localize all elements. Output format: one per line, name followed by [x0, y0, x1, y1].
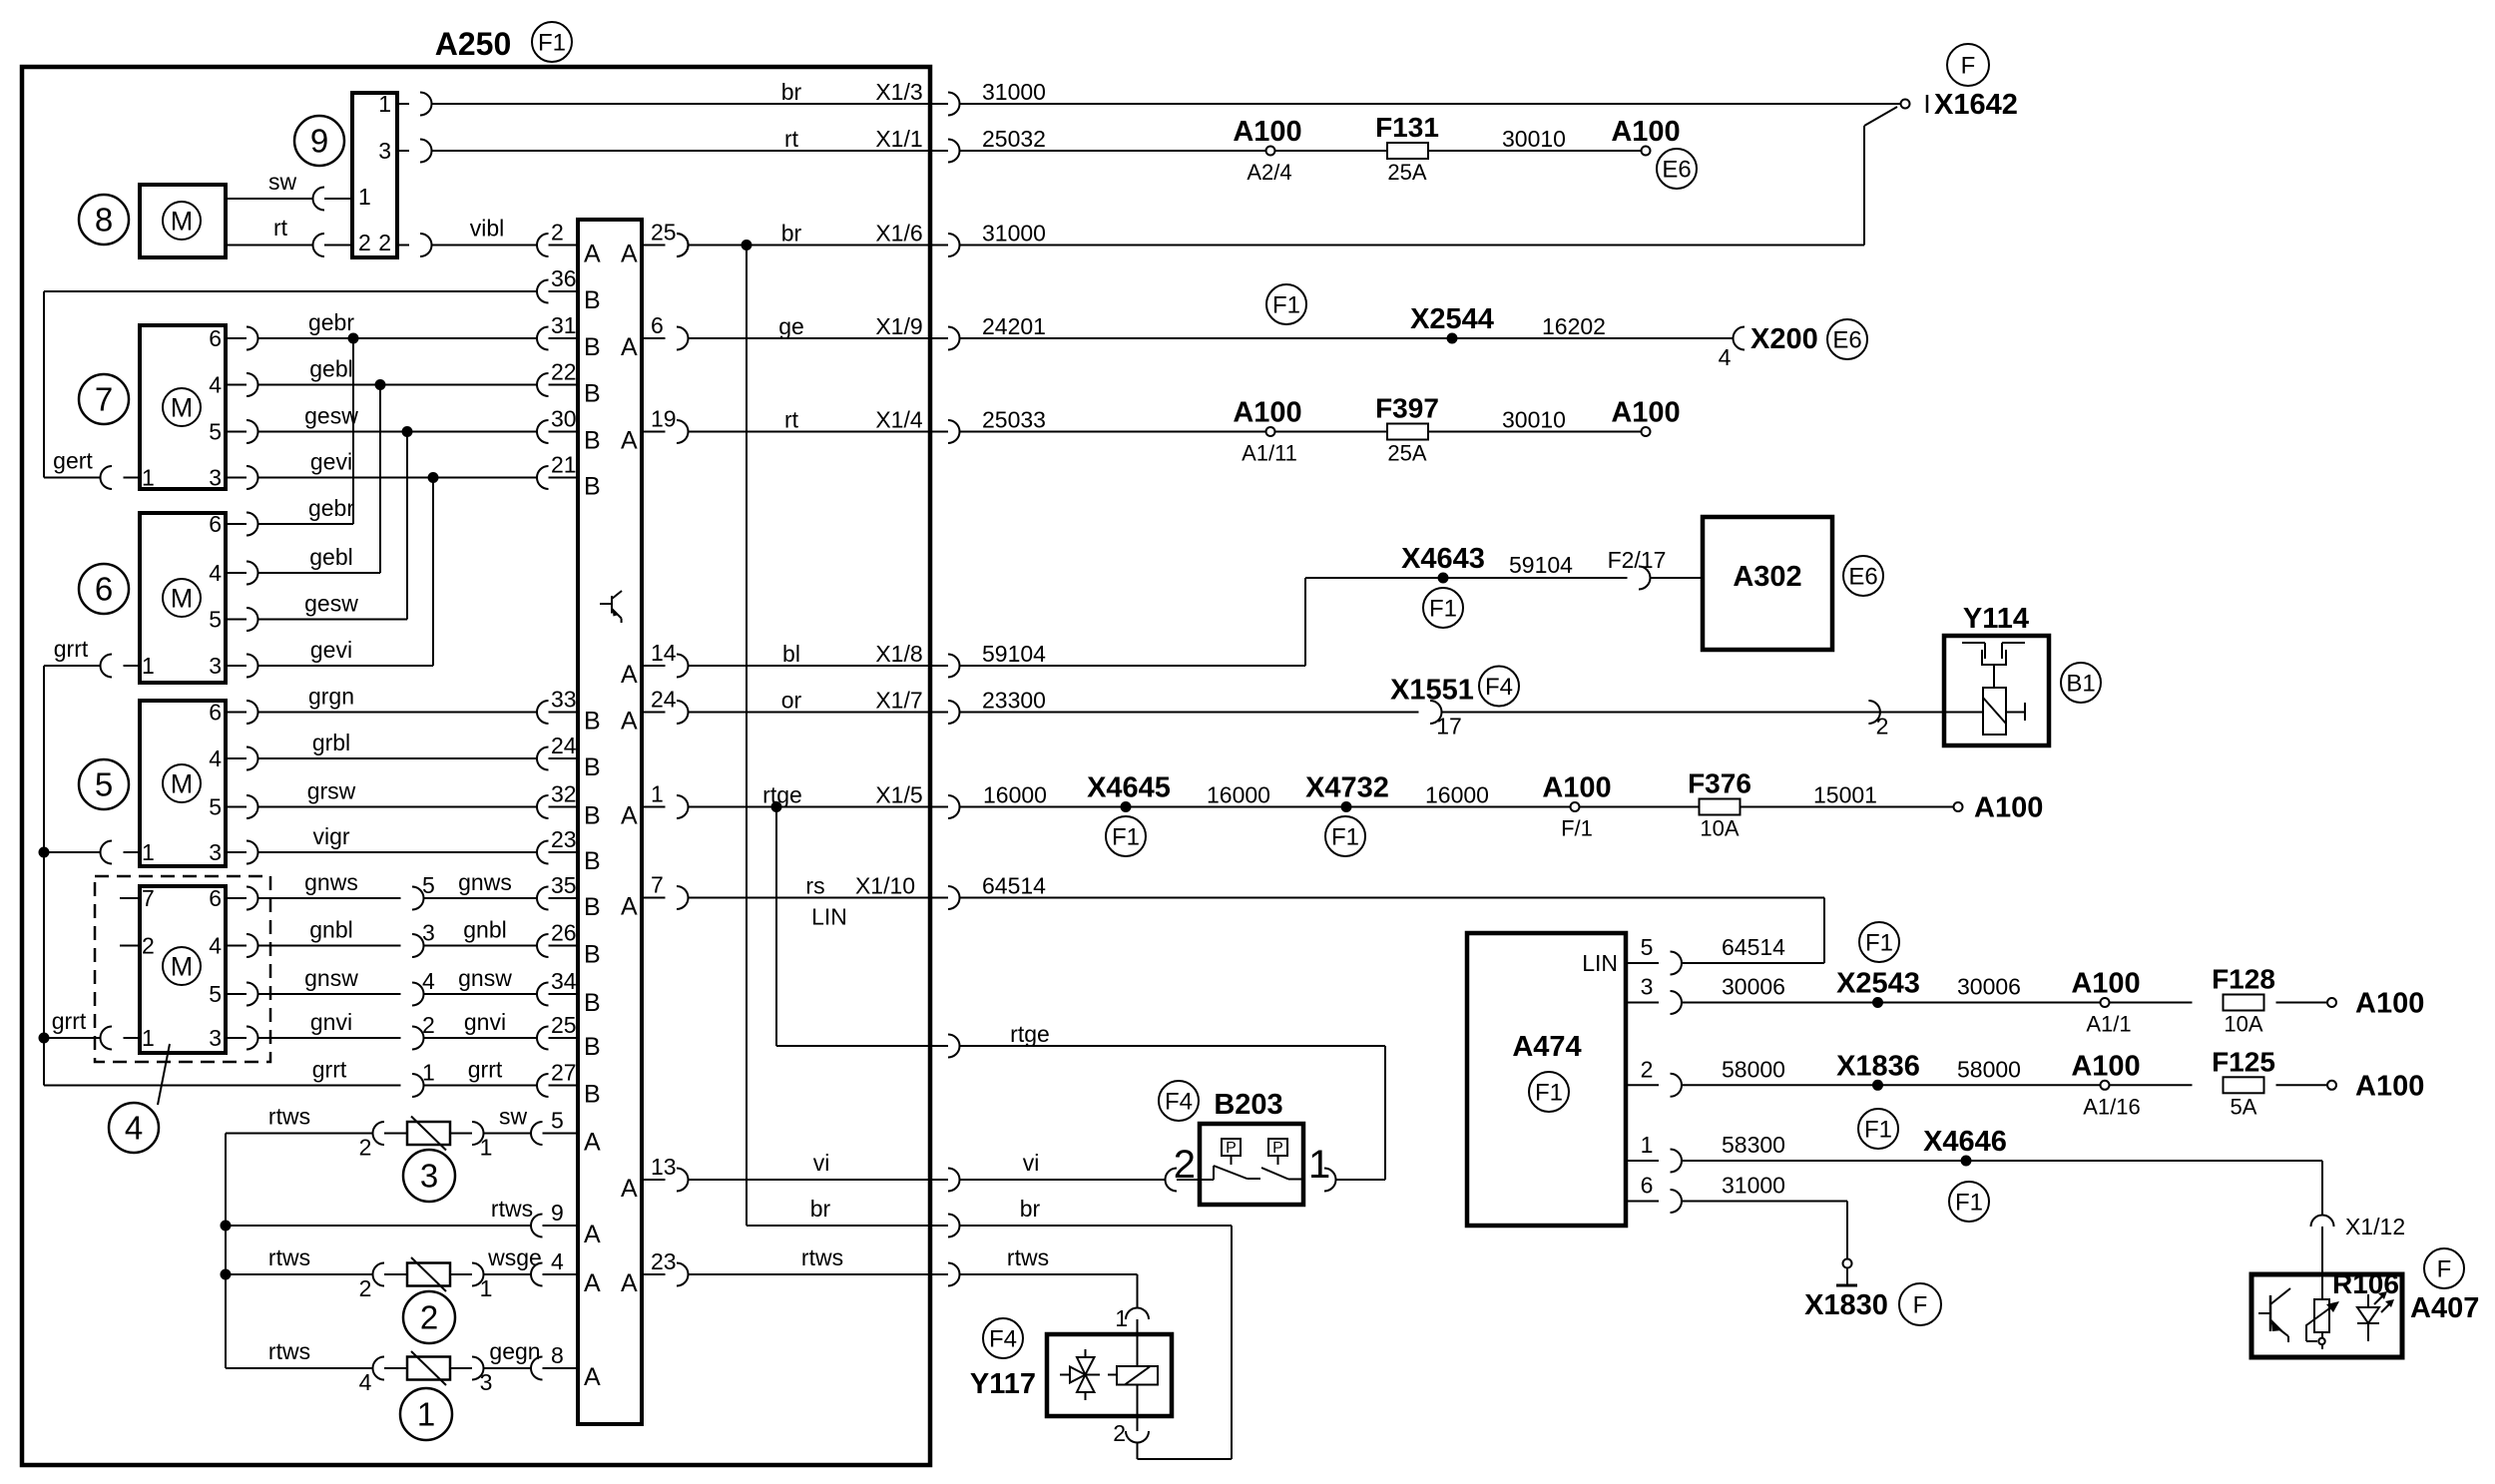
svg-text:35: 35 — [551, 872, 577, 898]
svg-text:1: 1 — [142, 1025, 155, 1051]
svg-text:1: 1 — [1115, 1305, 1128, 1331]
svg-text:A: A — [621, 893, 638, 921]
svg-text:R106: R106 — [2332, 1268, 2399, 1299]
svg-text:rtws: rtws — [1007, 1244, 1049, 1270]
svg-text:1: 1 — [422, 1060, 435, 1086]
svg-text:2: 2 — [358, 230, 371, 255]
svg-text:gnsw: gnsw — [458, 965, 512, 991]
svg-text:gnws: gnws — [304, 869, 358, 895]
svg-text:grrt: grrt — [312, 1057, 347, 1083]
svg-text:vibl: vibl — [470, 216, 505, 242]
svg-text:23: 23 — [551, 826, 577, 852]
svg-text:32: 32 — [551, 781, 577, 807]
svg-text:B: B — [584, 753, 601, 781]
svg-text:2: 2 — [420, 1299, 438, 1336]
svg-text:F128: F128 — [2212, 964, 2275, 995]
svg-text:F1: F1 — [1112, 823, 1140, 850]
svg-text:gnbl: gnbl — [309, 917, 352, 943]
svg-text:24: 24 — [651, 687, 677, 713]
svg-text:58300: 58300 — [1722, 1132, 1785, 1158]
svg-text:5: 5 — [422, 872, 435, 898]
svg-text:gebr: gebr — [308, 309, 354, 335]
svg-text:rtws: rtws — [268, 1338, 310, 1364]
svg-text:1: 1 — [480, 1275, 493, 1301]
svg-text:6: 6 — [651, 312, 664, 338]
svg-text:A474: A474 — [1512, 1031, 1581, 1063]
svg-text:4: 4 — [209, 372, 222, 398]
svg-text:3: 3 — [378, 138, 391, 164]
svg-text:31000: 31000 — [982, 221, 1046, 247]
svg-text:Y114: Y114 — [1963, 603, 2029, 635]
svg-text:B: B — [584, 380, 601, 408]
svg-text:gebl: gebl — [309, 356, 352, 382]
svg-text:gnbl: gnbl — [463, 917, 506, 943]
svg-text:F2/17: F2/17 — [1608, 547, 1667, 573]
svg-text:4: 4 — [209, 745, 222, 771]
svg-text:B: B — [584, 333, 601, 361]
svg-text:5A: 5A — [2231, 1094, 2257, 1119]
svg-text:X1/7: X1/7 — [875, 688, 922, 714]
svg-text:A100: A100 — [1611, 116, 1680, 148]
svg-text:2: 2 — [1113, 1420, 1126, 1446]
svg-text:31: 31 — [551, 312, 577, 338]
svg-text:31000: 31000 — [982, 79, 1046, 105]
svg-text:gnsw: gnsw — [304, 965, 358, 991]
svg-text:3: 3 — [209, 1025, 222, 1051]
svg-text:5: 5 — [209, 607, 222, 633]
svg-text:X1830: X1830 — [1804, 1289, 1888, 1321]
svg-text:A250: A250 — [435, 26, 512, 62]
svg-text:rs: rs — [805, 873, 824, 899]
svg-text:2: 2 — [1641, 1056, 1654, 1082]
svg-text:vigr: vigr — [312, 823, 349, 849]
svg-text:F4: F4 — [989, 1325, 1017, 1352]
svg-text:2: 2 — [551, 220, 564, 246]
svg-text:10A: 10A — [2224, 1012, 2262, 1037]
svg-text:13: 13 — [651, 1154, 677, 1180]
svg-text:2: 2 — [1876, 714, 1889, 740]
svg-text:10A: 10A — [1700, 816, 1739, 841]
svg-text:A407: A407 — [2410, 1292, 2479, 1324]
svg-text:F: F — [1913, 1291, 1928, 1318]
svg-text:A302: A302 — [1733, 561, 1801, 593]
svg-text:B: B — [584, 893, 601, 921]
svg-text:A100: A100 — [2071, 1050, 2140, 1082]
svg-text:F4: F4 — [1485, 674, 1513, 701]
svg-text:A100: A100 — [1233, 397, 1301, 429]
svg-text:rtws: rtws — [268, 1244, 310, 1270]
svg-text:25: 25 — [651, 220, 677, 246]
svg-text:31000: 31000 — [1722, 1173, 1785, 1199]
svg-text:A1/1: A1/1 — [2086, 1012, 2131, 1037]
svg-text:19: 19 — [651, 406, 677, 432]
svg-text:2: 2 — [359, 1135, 372, 1161]
svg-text:6: 6 — [209, 325, 222, 351]
svg-text:5: 5 — [209, 794, 222, 820]
svg-text:1: 1 — [142, 465, 155, 491]
svg-text:8: 8 — [95, 202, 113, 239]
svg-text:M: M — [171, 206, 194, 236]
svg-text:grsw: grsw — [307, 778, 356, 804]
svg-text:9: 9 — [310, 123, 328, 160]
svg-text:X1836: X1836 — [1836, 1050, 1920, 1082]
svg-text:rt: rt — [784, 407, 799, 433]
svg-text:5: 5 — [209, 419, 222, 445]
svg-text:4: 4 — [359, 1369, 372, 1395]
svg-text:A: A — [621, 661, 638, 689]
svg-text:26: 26 — [551, 920, 577, 946]
svg-text:A100: A100 — [2071, 968, 2140, 1000]
svg-text:ge: ge — [778, 313, 804, 339]
svg-text:34: 34 — [551, 968, 577, 994]
svg-text:22: 22 — [551, 359, 577, 385]
svg-text:30006: 30006 — [1722, 974, 1785, 1000]
svg-text:X2543: X2543 — [1836, 968, 1920, 1000]
svg-text:B: B — [584, 427, 601, 455]
svg-text:6: 6 — [209, 700, 222, 726]
svg-text:A: A — [584, 1129, 601, 1157]
svg-text:E6: E6 — [1848, 563, 1877, 590]
svg-text:B: B — [584, 708, 601, 736]
svg-text:23300: 23300 — [982, 688, 1046, 714]
svg-text:rtws: rtws — [268, 1104, 310, 1130]
svg-text:30010: 30010 — [1502, 407, 1566, 433]
svg-text:3: 3 — [1641, 974, 1654, 1000]
svg-text:3: 3 — [209, 465, 222, 491]
svg-text:24: 24 — [551, 733, 577, 758]
svg-text:M: M — [171, 392, 194, 422]
svg-text:M: M — [171, 583, 194, 613]
svg-text:rt: rt — [784, 126, 799, 152]
svg-text:2: 2 — [422, 1012, 435, 1038]
svg-text:A: A — [621, 1269, 638, 1297]
svg-text:2: 2 — [142, 933, 155, 959]
svg-text:br: br — [781, 79, 802, 105]
svg-text:Y117: Y117 — [970, 1368, 1036, 1400]
svg-text:2: 2 — [378, 230, 391, 255]
svg-text:rtge: rtge — [1010, 1021, 1050, 1047]
svg-text:or: or — [781, 688, 802, 714]
svg-text:30006: 30006 — [1957, 974, 2021, 1000]
svg-text:LIN: LIN — [1582, 950, 1618, 976]
svg-text:F: F — [2437, 1255, 2452, 1282]
svg-text:X4643: X4643 — [1401, 543, 1485, 575]
svg-text:1: 1 — [1641, 1132, 1654, 1158]
svg-text:B: B — [584, 1081, 601, 1109]
svg-text:1: 1 — [651, 781, 664, 807]
svg-text:25: 25 — [551, 1012, 577, 1038]
svg-text:4: 4 — [422, 968, 435, 994]
svg-text:5: 5 — [551, 1108, 564, 1134]
svg-text:59104: 59104 — [1509, 552, 1573, 578]
svg-text:4: 4 — [209, 560, 222, 586]
svg-text:6: 6 — [209, 885, 222, 911]
svg-text:7: 7 — [142, 885, 155, 911]
svg-text:X1551: X1551 — [1390, 675, 1474, 707]
svg-text:gesw: gesw — [304, 591, 358, 617]
svg-text:1: 1 — [358, 184, 371, 210]
svg-text:16000: 16000 — [1207, 782, 1270, 808]
svg-text:1: 1 — [142, 839, 155, 865]
svg-text:F131: F131 — [1375, 112, 1439, 143]
svg-text:F/1: F/1 — [1561, 816, 1593, 841]
svg-text:A1/16: A1/16 — [2083, 1094, 2141, 1119]
svg-text:X1/12: X1/12 — [2345, 1214, 2405, 1239]
svg-text:6: 6 — [1641, 1173, 1654, 1199]
svg-text:M: M — [171, 768, 194, 798]
svg-text:3: 3 — [480, 1369, 493, 1395]
svg-text:X1/6: X1/6 — [875, 221, 922, 247]
svg-text:X1/9: X1/9 — [875, 313, 922, 339]
svg-text:gebl: gebl — [309, 544, 352, 570]
svg-text:gert: gert — [53, 448, 93, 474]
svg-text:A: A — [621, 427, 638, 455]
svg-text:21: 21 — [551, 452, 577, 478]
svg-text:1: 1 — [417, 1396, 435, 1433]
svg-text:gnvi: gnvi — [464, 1009, 506, 1035]
svg-text:4: 4 — [551, 1248, 564, 1274]
svg-text:14: 14 — [651, 640, 677, 666]
svg-text:gegn: gegn — [489, 1338, 540, 1364]
svg-text:7: 7 — [95, 381, 113, 418]
svg-text:gebr: gebr — [308, 495, 354, 521]
svg-text:F1: F1 — [1535, 1079, 1563, 1106]
svg-text:wsge: wsge — [487, 1244, 542, 1270]
svg-text:M: M — [171, 951, 194, 981]
svg-text:br: br — [810, 1196, 831, 1222]
svg-text:X4645: X4645 — [1087, 772, 1171, 804]
svg-text:A100: A100 — [2355, 1070, 2424, 1102]
svg-text:5: 5 — [95, 766, 113, 803]
svg-text:br: br — [1020, 1196, 1041, 1222]
svg-text:25033: 25033 — [982, 407, 1046, 433]
svg-text:rtws: rtws — [801, 1244, 843, 1270]
svg-text:59104: 59104 — [982, 641, 1046, 667]
svg-text:X4646: X4646 — [1923, 1126, 2007, 1158]
svg-text:A100: A100 — [1611, 397, 1680, 429]
svg-text:X2544: X2544 — [1410, 303, 1494, 335]
svg-text:F1: F1 — [538, 29, 566, 56]
svg-text:X1/8: X1/8 — [875, 641, 922, 667]
svg-text:15001: 15001 — [1813, 782, 1877, 808]
svg-text:F4: F4 — [1165, 1088, 1193, 1115]
svg-text:17: 17 — [1436, 714, 1462, 740]
svg-text:16202: 16202 — [1542, 313, 1606, 339]
svg-text:B: B — [584, 941, 601, 969]
svg-text:6: 6 — [95, 571, 113, 608]
svg-text:B: B — [584, 473, 601, 501]
svg-text:30010: 30010 — [1502, 126, 1566, 152]
svg-text:3: 3 — [209, 839, 222, 865]
svg-text:B203: B203 — [1214, 1089, 1282, 1121]
svg-text:grrt: grrt — [54, 636, 89, 662]
svg-text:30: 30 — [551, 406, 577, 432]
svg-text:X4732: X4732 — [1305, 772, 1389, 804]
svg-text:A100: A100 — [1542, 772, 1611, 804]
svg-text:gevi: gevi — [310, 637, 352, 663]
svg-text:B: B — [584, 286, 601, 314]
svg-text:rtge: rtge — [762, 782, 802, 808]
svg-text:grgn: grgn — [308, 684, 354, 710]
svg-text:X1/3: X1/3 — [875, 79, 922, 105]
svg-text:F1: F1 — [1955, 1189, 1983, 1216]
svg-text:6: 6 — [209, 511, 222, 537]
svg-text:9: 9 — [551, 1200, 564, 1226]
svg-text:A: A — [621, 1175, 638, 1203]
svg-text:5: 5 — [1641, 934, 1654, 960]
svg-text:B: B — [584, 847, 601, 875]
svg-text:grbl: grbl — [312, 730, 350, 755]
svg-text:7: 7 — [651, 872, 664, 898]
svg-text:1: 1 — [1308, 1143, 1330, 1187]
svg-text:F397: F397 — [1375, 393, 1439, 424]
svg-text:27: 27 — [551, 1060, 577, 1086]
svg-text:4: 4 — [125, 1110, 143, 1147]
svg-text:X1/5: X1/5 — [875, 782, 922, 808]
svg-text:bl: bl — [782, 641, 800, 667]
svg-text:A100: A100 — [1974, 792, 2043, 824]
svg-text:36: 36 — [551, 265, 577, 291]
svg-text:E6: E6 — [1832, 326, 1861, 353]
svg-text:X1/10: X1/10 — [855, 873, 915, 899]
svg-text:A: A — [584, 1269, 601, 1297]
svg-text:4: 4 — [1719, 344, 1732, 370]
svg-text:B1: B1 — [2066, 670, 2095, 697]
svg-text:rtws: rtws — [491, 1196, 533, 1222]
svg-text:64514: 64514 — [982, 873, 1046, 899]
svg-text:25A: 25A — [1387, 160, 1426, 185]
svg-text:X1642: X1642 — [1934, 89, 2018, 121]
svg-text:3: 3 — [209, 653, 222, 679]
svg-text:E6: E6 — [1662, 156, 1691, 183]
svg-text:8: 8 — [551, 1342, 564, 1368]
svg-text:3: 3 — [420, 1158, 438, 1195]
svg-text:A: A — [584, 1221, 601, 1248]
svg-text:1: 1 — [378, 91, 391, 117]
svg-text:23: 23 — [651, 1248, 677, 1274]
svg-text:5: 5 — [209, 981, 222, 1007]
svg-text:F125: F125 — [2212, 1046, 2275, 1077]
svg-text:gevi: gevi — [310, 449, 352, 475]
svg-text:A: A — [584, 1363, 601, 1391]
svg-text:58000: 58000 — [1722, 1056, 1785, 1082]
svg-text:16000: 16000 — [1425, 782, 1489, 808]
svg-text:rt: rt — [273, 215, 288, 241]
svg-text:1: 1 — [480, 1135, 493, 1161]
svg-text:F1: F1 — [1331, 823, 1359, 850]
svg-text:A1/11: A1/11 — [1242, 441, 1297, 466]
svg-text:A: A — [584, 241, 601, 268]
svg-text:F1: F1 — [1864, 1116, 1892, 1143]
svg-text:br: br — [781, 221, 802, 247]
svg-text:gnws: gnws — [458, 869, 512, 895]
svg-text:sw: sw — [268, 169, 297, 195]
svg-text:58000: 58000 — [1957, 1056, 2021, 1082]
svg-text:16000: 16000 — [983, 782, 1047, 808]
svg-text:25A: 25A — [1387, 441, 1426, 466]
svg-text:F376: F376 — [1688, 768, 1751, 799]
svg-text:grrt: grrt — [52, 1008, 87, 1034]
svg-text:F1: F1 — [1429, 595, 1457, 622]
svg-text:vi: vi — [1023, 1150, 1040, 1176]
svg-text:X1/4: X1/4 — [875, 407, 923, 433]
svg-text:X200: X200 — [1750, 323, 1818, 355]
svg-text:2: 2 — [359, 1275, 372, 1301]
svg-text:P: P — [1226, 1140, 1237, 1157]
svg-text:grrt: grrt — [468, 1057, 503, 1083]
svg-text:vi: vi — [813, 1150, 830, 1176]
svg-text:24201: 24201 — [982, 313, 1046, 339]
svg-text:4: 4 — [209, 933, 222, 959]
svg-text:25032: 25032 — [982, 126, 1046, 152]
svg-text:A100: A100 — [1233, 116, 1301, 148]
svg-text:A: A — [621, 708, 638, 736]
svg-text:A: A — [621, 333, 638, 361]
svg-text:sw: sw — [499, 1104, 528, 1130]
svg-text:F1: F1 — [1865, 929, 1893, 956]
svg-text:33: 33 — [551, 687, 577, 713]
svg-text:B: B — [584, 989, 601, 1017]
svg-text:gesw: gesw — [304, 403, 358, 429]
svg-text:B: B — [584, 802, 601, 830]
svg-text:3: 3 — [422, 920, 435, 946]
svg-text:F: F — [1961, 52, 1976, 79]
svg-text:A: A — [621, 802, 638, 830]
svg-text:64514: 64514 — [1722, 934, 1785, 960]
svg-text:A100: A100 — [2355, 988, 2424, 1020]
svg-text:gnvi: gnvi — [310, 1009, 352, 1035]
svg-text:A: A — [621, 241, 638, 268]
svg-text:LIN: LIN — [811, 904, 847, 930]
svg-text:1: 1 — [142, 653, 155, 679]
svg-text:A2/4: A2/4 — [1247, 160, 1291, 185]
svg-text:B: B — [584, 1033, 601, 1061]
svg-text:F1: F1 — [1272, 291, 1300, 318]
svg-text:P: P — [1272, 1140, 1283, 1157]
svg-text:X1/1: X1/1 — [875, 126, 922, 152]
